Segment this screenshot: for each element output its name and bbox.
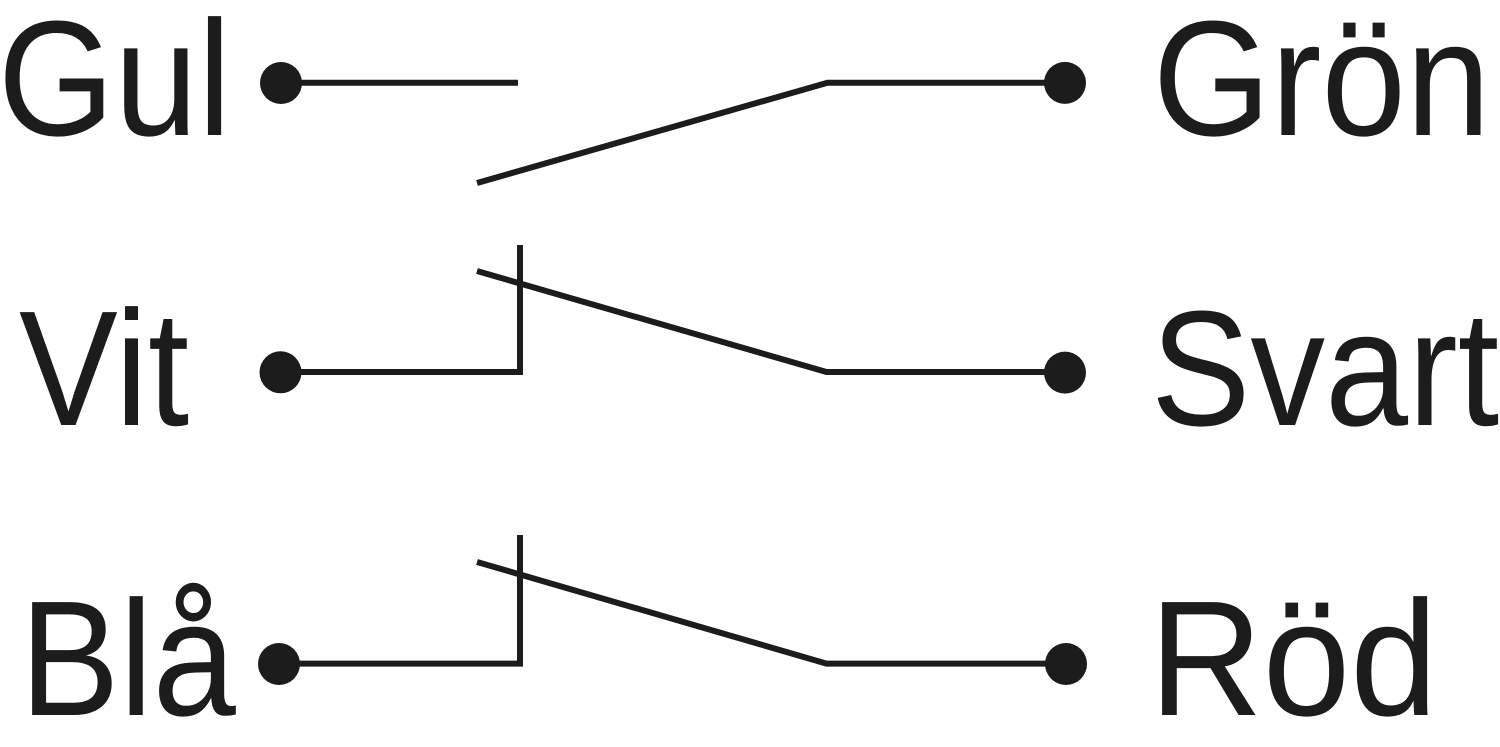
svg-text:Vit: Vit: [19, 278, 189, 461]
svg-text:Grön: Grön: [1153, 0, 1491, 170]
svg-text:Blå: Blå: [20, 568, 237, 747]
svg-text:Röd: Röd: [1149, 568, 1438, 747]
svg-text:Gul: Gul: [0, 0, 231, 170]
svg-text:Svart: Svart: [1151, 278, 1499, 461]
